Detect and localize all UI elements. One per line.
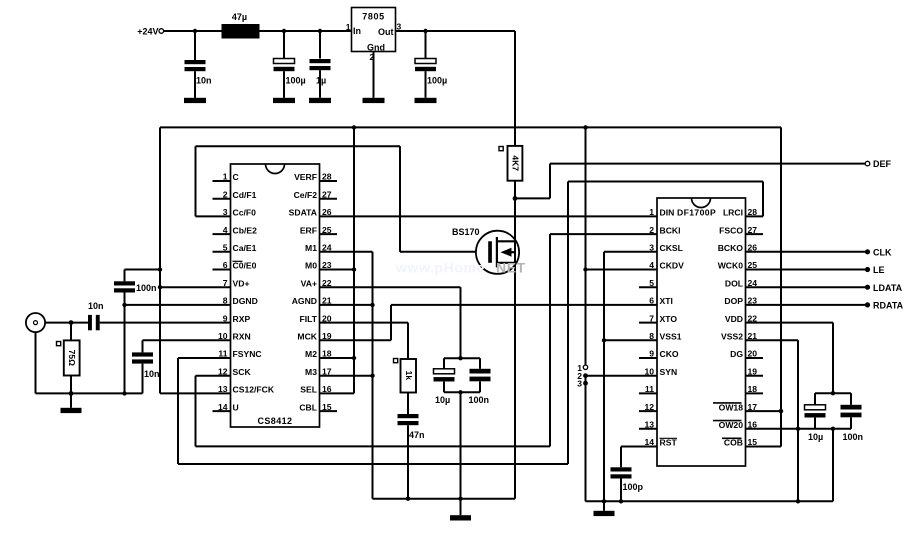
svg-text:LDATA: LDATA bbox=[873, 283, 903, 293]
svg-text:CKSL: CKSL bbox=[660, 243, 683, 253]
svg-text:DOP: DOP bbox=[724, 296, 743, 306]
wire gate loop top bbox=[196, 145, 401, 147]
svg-text:XTI: XTI bbox=[660, 296, 673, 306]
ground (7805) bbox=[363, 98, 385, 103]
svg-text:LE: LE bbox=[873, 265, 885, 275]
svg-text:1µ: 1µ bbox=[316, 76, 326, 86]
jumper pad 2 bbox=[577, 371, 588, 381]
wire +24V input rail bbox=[164, 30, 352, 32]
svg-text:100n: 100n bbox=[469, 395, 490, 405]
svg-text:1: 1 bbox=[346, 22, 351, 32]
svg-text:DOL: DOL bbox=[725, 278, 743, 288]
wire M1/AGND/M3 vertical bbox=[372, 252, 374, 499]
wire loop down to LRCI bbox=[762, 182, 764, 217]
wire DEF node right bbox=[515, 197, 550, 199]
junction OW18/+5 right leg bbox=[779, 409, 783, 413]
wire input ground rail bbox=[36, 392, 143, 394]
wire FSYNC bottom run bbox=[178, 463, 568, 465]
svg-text:OW20: OW20 bbox=[719, 420, 744, 430]
svg-text:DGND: DGND bbox=[233, 296, 258, 306]
wire OW20 pin16 bbox=[746, 428, 816, 430]
wire SCK bottom run bbox=[196, 445, 551, 447]
junction 100n/+5 leg bbox=[158, 267, 162, 271]
capacitor 100µ (input) bbox=[274, 31, 306, 98]
wire VA+ caps top bridge bbox=[444, 357, 480, 359]
svg-text:VA+: VA+ bbox=[301, 278, 317, 288]
watermark bbox=[395, 260, 526, 276]
transistor Q BS170 bbox=[452, 227, 519, 274]
svg-text:In: In bbox=[353, 26, 361, 36]
svg-text:FSYNC: FSYNC bbox=[233, 349, 262, 359]
junction caps bottom/down leg bbox=[458, 390, 462, 394]
marker (1k) bbox=[394, 359, 398, 363]
svg-text:7805: 7805 bbox=[362, 12, 384, 22]
wire BS170 drain-source lead bbox=[514, 198, 516, 498]
wire jumper pad2-pad3 link bbox=[585, 376, 587, 384]
wire 10n to RXP pin9 bbox=[100, 322, 231, 324]
IC U2 DF1700P bbox=[644, 198, 757, 466]
wire SCK down bbox=[195, 376, 197, 447]
junction VA+/caps top bbox=[458, 356, 462, 360]
svg-text:47n: 47n bbox=[409, 430, 425, 440]
wire FILT down to 1k bbox=[407, 323, 409, 359]
svg-text:+24V: +24V bbox=[137, 27, 158, 37]
svg-text:10µ: 10µ bbox=[435, 395, 450, 405]
wire CKSL/VSS1 ground leg bbox=[603, 252, 605, 501]
wire M2 pin18 bbox=[320, 357, 355, 359]
svg-text:C0/E0: C0/E0 bbox=[233, 261, 257, 271]
svg-text:100p: 100p bbox=[623, 482, 644, 492]
svg-text:1: 1 bbox=[649, 207, 654, 217]
svg-text:Ca/E1: Ca/E1 bbox=[233, 243, 257, 253]
capacitor 100µ (output) bbox=[415, 31, 447, 98]
capacitor 47n bbox=[398, 414, 425, 499]
svg-text:DIN: DIN bbox=[660, 208, 675, 218]
svg-text:BCKO: BCKO bbox=[718, 243, 744, 253]
wire VSS2 down to ground rail bbox=[797, 340, 799, 501]
wire RXN pin10 bbox=[143, 339, 231, 341]
+24V input terminal bbox=[137, 27, 163, 37]
svg-text:CS12/FCK: CS12/FCK bbox=[233, 385, 275, 395]
junction AGND/M1 vertical bbox=[370, 303, 374, 307]
wire VDD down to caps bbox=[832, 323, 834, 394]
svg-text:10n: 10n bbox=[88, 301, 104, 311]
svg-text:RST: RST bbox=[660, 438, 678, 448]
wire VA+ down to caps bbox=[460, 287, 462, 358]
wire 7805 output down to R 4k7 bbox=[514, 31, 516, 146]
junction 100µ output/rail bbox=[423, 29, 427, 33]
svg-text:100µ: 100µ bbox=[427, 76, 447, 86]
wire FSYNC loop top bbox=[568, 181, 763, 183]
junction +5V/M0 branch bbox=[352, 125, 356, 129]
wire MCK pin19 bbox=[320, 339, 392, 341]
svg-text:2: 2 bbox=[649, 225, 654, 235]
svg-text:VERF: VERF bbox=[294, 172, 317, 182]
wire VSS1 pin8 bbox=[604, 339, 657, 341]
svg-text:10µ: 10µ bbox=[808, 432, 823, 442]
svg-text:CLK: CLK bbox=[873, 248, 892, 258]
wire 7805 ground pin bbox=[373, 52, 375, 98]
wire VD+ pin7 bbox=[160, 286, 231, 288]
wire FSYNC down bbox=[177, 358, 179, 464]
svg-text:Ce/F2: Ce/F2 bbox=[294, 190, 318, 200]
wire source bottom leg bbox=[35, 332, 37, 393]
ground (1µ cap) bbox=[309, 98, 331, 103]
wire VDD pin22 bbox=[746, 322, 834, 324]
input source connector bbox=[26, 313, 45, 332]
wire BCKI pin2 bbox=[550, 233, 657, 235]
svg-text:C: C bbox=[233, 172, 239, 182]
DF1700 unconnected left pin stubs bbox=[639, 287, 657, 429]
wire VDD caps top bridge bbox=[815, 392, 851, 394]
wire +5V rail right leg (to OW18/COB) bbox=[780, 127, 782, 446]
capacitor 10n (RXN) bbox=[132, 340, 160, 393]
wire 75R bottom bbox=[70, 376, 72, 394]
marker (75R) bbox=[57, 342, 61, 346]
svg-text:CKDV: CKDV bbox=[660, 261, 685, 271]
wire DEF node up bbox=[549, 164, 551, 199]
svg-text:RXP: RXP bbox=[233, 314, 251, 324]
svg-text:100n: 100n bbox=[843, 432, 864, 442]
wire MCK jog up bbox=[390, 305, 392, 340]
junction M3/M1 vertical bbox=[370, 374, 374, 378]
wire FILT pin20 bbox=[320, 322, 409, 324]
svg-text:M0: M0 bbox=[305, 261, 317, 271]
junction OW20/VSS2 leg bbox=[796, 427, 800, 431]
svg-text:RDATA: RDATA bbox=[873, 301, 904, 311]
svg-text:10n: 10n bbox=[144, 369, 160, 379]
resistor R 4k7 bbox=[508, 146, 523, 181]
wire 4k7 to drain node bbox=[514, 181, 516, 199]
svg-text:OW18: OW18 bbox=[719, 402, 744, 412]
resistor R 75Ω bbox=[64, 340, 80, 375]
voltage regulator U 7805 bbox=[346, 8, 402, 63]
svg-text:M1: M1 bbox=[305, 243, 317, 253]
wire FSYNC pin11 bbox=[178, 357, 231, 359]
junction 100µ/input rail bbox=[282, 29, 286, 33]
junction VSS2/ground rail bbox=[796, 499, 800, 503]
wire +5V branch to M0/M2/SEL bbox=[353, 127, 355, 393]
wire SCK up to BCKI bbox=[549, 234, 551, 446]
junction 100p/ground rail bbox=[619, 499, 623, 503]
svg-text:NET: NET bbox=[496, 260, 526, 276]
capacitor 1µ bbox=[310, 31, 331, 98]
wire +5V rail horizontal bbox=[160, 126, 781, 128]
junction DGND/100n bbox=[122, 303, 126, 307]
wire AGND pin21 bbox=[320, 304, 373, 306]
wire 7805 output rail bbox=[396, 30, 516, 32]
wire SCK pin12 bbox=[196, 375, 231, 377]
svg-text:BCKI: BCKI bbox=[660, 225, 681, 235]
junction 1µ/input rail bbox=[318, 29, 322, 33]
svg-text:U: U bbox=[233, 402, 239, 412]
wire CS12/FCK pin13 bbox=[160, 392, 231, 394]
DF1700 unconnected right pin stubs bbox=[746, 234, 764, 393]
wire MCK to XTI bbox=[391, 304, 657, 306]
svg-text:Cc/F0: Cc/F0 bbox=[233, 208, 257, 218]
jumper pad 3 bbox=[577, 379, 588, 389]
CS8412 unconnected left pin stubs bbox=[213, 181, 231, 411]
wire SEL pin16 bbox=[320, 392, 355, 394]
svg-text:4K7: 4K7 bbox=[510, 155, 520, 171]
wire OW18 pin17 bbox=[746, 410, 782, 412]
wire analog ground sub-rail bbox=[373, 498, 516, 500]
svg-text:Gnd: Gnd bbox=[367, 43, 385, 53]
marker (4k7) bbox=[499, 147, 503, 151]
ground (100µ input cap) bbox=[273, 98, 295, 103]
junction 75R/ground rail bbox=[69, 391, 74, 396]
svg-text:DF1700P: DF1700P bbox=[677, 208, 716, 218]
svg-text:SCK: SCK bbox=[233, 367, 252, 377]
wire +5V rail left leg (to VD+ / CS12-FCK) bbox=[159, 127, 161, 393]
capacitor 10n (series, RXP input) bbox=[88, 301, 104, 330]
svg-text:1k: 1k bbox=[404, 371, 414, 381]
svg-text:M2: M2 bbox=[305, 349, 317, 359]
inductor 47µ bbox=[222, 12, 260, 39]
CS8412 unconnected right pin stubs bbox=[320, 181, 338, 411]
capacitor 100n (VDD filter) bbox=[841, 393, 864, 442]
wire CKSL pin3 bbox=[604, 251, 657, 253]
junction VDD/caps top bbox=[831, 391, 835, 395]
wire CKDV pin4 bbox=[586, 269, 658, 271]
svg-text:SYN: SYN bbox=[660, 367, 678, 377]
wire VA+ caps bottom bridge bbox=[444, 391, 480, 393]
svg-text:CBL: CBL bbox=[299, 402, 317, 412]
svg-text:CS8412: CS8412 bbox=[258, 416, 293, 426]
terminal RDATA bbox=[865, 301, 904, 311]
svg-text:6: 6 bbox=[649, 296, 654, 306]
junction M2/+5 branch bbox=[352, 356, 356, 360]
wire source to 10n series cap bbox=[45, 322, 88, 324]
svg-text:VSS1: VSS1 bbox=[660, 332, 682, 342]
svg-text:100µ: 100µ bbox=[286, 76, 306, 86]
svg-text:RXN: RXN bbox=[233, 332, 251, 342]
svg-text:AGND: AGND bbox=[292, 296, 317, 306]
svg-text:47µ: 47µ bbox=[232, 12, 247, 22]
wire SYN pin10 bbox=[586, 375, 658, 377]
junction M0/+5 branch bbox=[352, 267, 356, 271]
svg-text:FSCO: FSCO bbox=[719, 225, 743, 235]
junction drain/DEF node bbox=[513, 196, 518, 201]
ground (digital) bbox=[594, 501, 615, 516]
svg-text:BS170: BS170 bbox=[452, 227, 480, 237]
svg-text:Cb/E2: Cb/E2 bbox=[233, 225, 258, 235]
capacitor 100n (VD+ decoupling) bbox=[114, 270, 157, 394]
wire +5V branch to jumper pad 1 bbox=[585, 127, 587, 367]
junction ground stem/rail bbox=[602, 499, 606, 503]
junction caps leg/analog ground rail bbox=[458, 497, 462, 501]
wire DOP to RDATA bbox=[746, 304, 866, 306]
junction 100n leg/ground rail bbox=[122, 391, 126, 395]
capacitor 10µ (VDD filter) bbox=[805, 393, 826, 442]
wire Cc/F0 pin3 to gate loop bbox=[196, 146, 231, 216]
svg-text:WCK0: WCK0 bbox=[718, 261, 744, 271]
svg-text:COB: COB bbox=[724, 438, 743, 448]
ground (input network) bbox=[61, 393, 82, 413]
junction +5V/CKDV branch bbox=[583, 125, 587, 129]
wire SDATA to DIN bbox=[320, 215, 658, 217]
svg-text:SDATA: SDATA bbox=[289, 208, 317, 218]
svg-text:LRCI: LRCI bbox=[723, 208, 743, 218]
junction 47n/analog ground rail bbox=[406, 497, 410, 501]
svg-text:100n: 100n bbox=[136, 283, 157, 293]
svg-text:SEL: SEL bbox=[300, 385, 317, 395]
junction CKDV/+5 branch bbox=[583, 267, 587, 271]
svg-text:VD+: VD+ bbox=[233, 278, 250, 288]
svg-text:10n: 10n bbox=[196, 76, 212, 86]
wire 1k to 47n bbox=[407, 393, 409, 415]
wire RST down to 100p bbox=[620, 447, 622, 468]
wire BCKO to CLK bbox=[746, 251, 866, 253]
capacitor 10µ (VA+ filter) bbox=[434, 358, 455, 405]
wire VDD caps bottom bridge bbox=[815, 428, 851, 430]
wire DGND pin8 bbox=[125, 304, 231, 306]
wire caps bottom to ground bbox=[460, 392, 462, 515]
terminal LDATA bbox=[865, 283, 903, 293]
wire RST pin14 bbox=[621, 446, 657, 448]
IC U1 CS8412 bbox=[218, 164, 332, 427]
junction 10n/input rail bbox=[193, 29, 197, 33]
capacitor 100n (VA+ filter) bbox=[469, 358, 491, 405]
svg-text:DG: DG bbox=[730, 349, 743, 359]
junction VSS1/ground leg bbox=[602, 338, 606, 342]
svg-text:FILT: FILT bbox=[300, 314, 318, 324]
wire DOL to LDATA bbox=[746, 286, 866, 288]
svg-text:3: 3 bbox=[577, 379, 582, 389]
wire M1 pin24 bbox=[320, 251, 373, 253]
wire 100n top to +5 rail bbox=[125, 269, 161, 271]
wire VA+ pin22 bbox=[320, 286, 461, 288]
wire M0 pin23 bbox=[320, 269, 355, 271]
svg-text:Cd/F1: Cd/F1 bbox=[233, 190, 257, 200]
wire DEF output line bbox=[550, 163, 866, 165]
svg-text:75Ω: 75Ω bbox=[67, 350, 77, 366]
capacitor 10n (input filter) bbox=[185, 31, 212, 98]
wire WCK0 to LE bbox=[746, 269, 866, 271]
svg-text:ERF: ERF bbox=[300, 225, 317, 235]
terminal LE bbox=[865, 265, 885, 275]
wire VSS2 pin21 bbox=[746, 339, 799, 341]
wire digital ground rail bbox=[586, 500, 834, 502]
junction RXP/75R bbox=[69, 320, 74, 325]
jumper pad 1 bbox=[577, 363, 587, 373]
ground (10n input cap) bbox=[184, 98, 206, 103]
resistor R 1k bbox=[401, 359, 417, 393]
svg-text:DEF: DEF bbox=[873, 159, 892, 169]
capacitor 100p bbox=[611, 467, 644, 501]
wire pad3 down to ground rail bbox=[585, 383, 587, 501]
svg-text:VDD: VDD bbox=[725, 314, 743, 324]
svg-text:VSS2: VSS2 bbox=[721, 332, 743, 342]
wire LRCI pin28 bbox=[746, 215, 764, 217]
junction VD+/+5 leg bbox=[158, 285, 162, 289]
svg-text:M3: M3 bbox=[305, 367, 317, 377]
terminal CLK bbox=[865, 248, 892, 258]
svg-text:www.pHome: www.pHome bbox=[395, 260, 485, 276]
svg-text:28: 28 bbox=[748, 207, 758, 217]
wire 75R top bbox=[70, 323, 72, 341]
wire FSYNC loop up bbox=[567, 182, 569, 465]
wire to BS170 gate bbox=[400, 251, 489, 253]
terminal DEF bbox=[865, 159, 891, 169]
svg-text:CKO: CKO bbox=[660, 349, 679, 359]
wire gate loop down bbox=[399, 146, 401, 252]
wire caps bottom to ground rail bbox=[832, 429, 834, 502]
svg-text:XTO: XTO bbox=[660, 314, 678, 324]
junction caps bottom/down bbox=[831, 427, 835, 431]
svg-text:Out: Out bbox=[378, 27, 394, 37]
wire M3 pin17 bbox=[320, 375, 373, 377]
ground (100µ output cap) bbox=[415, 98, 437, 103]
svg-text:MCK: MCK bbox=[297, 332, 317, 342]
wire COB pin15 bbox=[746, 446, 782, 448]
ground (VA+ filter) bbox=[450, 515, 471, 520]
